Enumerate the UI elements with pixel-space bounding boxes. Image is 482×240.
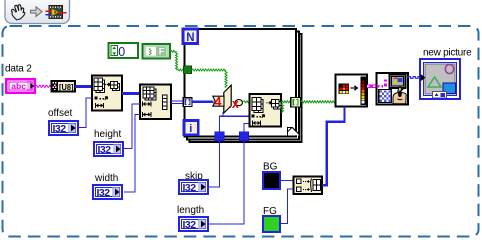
I32 control length — [177, 205, 208, 231]
I32 control offset — [48, 108, 78, 135]
node Array Subset — [92, 76, 122, 111]
boolean wire 4.x to Replace Array Subset — [243, 101, 249, 103]
svg-text:4: 4 — [214, 94, 222, 109]
svg-text:BG: BG — [263, 162, 278, 173]
for loop main frame — [185, 29, 297, 137]
toolbar VI snippet icon — [46, 6, 67, 19]
node Draw Flattened Pixmap — [377, 73, 409, 105]
boolean wire False constant to loop tunnel — [170, 50, 177, 52]
svg-text:0: 0 — [118, 45, 125, 59]
svg-text:I32: I32 — [53, 123, 67, 135]
numeric constant 0 — [109, 43, 139, 59]
boolean constant False — [143, 44, 171, 59]
node Reshape Array — [140, 85, 171, 120]
I32 control skip — [179, 171, 208, 194]
wire length to tunnel — [209, 141, 244, 224]
boolean wire stub down right edge — [282, 103, 284, 113]
I32 control width — [93, 173, 122, 199]
svg-text:i: i — [189, 123, 192, 135]
svg-text:.x: .x — [228, 97, 238, 111]
node Build Array — [294, 177, 323, 195]
svg-text:I32: I32 — [97, 187, 111, 199]
svg-text:height: height — [94, 129, 121, 140]
svg-text:I32: I32 — [98, 144, 112, 156]
color array wire Build Array to mapper — [322, 107, 345, 186]
wire width to Reshape — [124, 115, 140, 193]
svg-text:N: N — [186, 32, 194, 44]
boolean wire Replace Array Subset to right tunnel — [281, 101, 291, 103]
loop bottom tunnel skip — [215, 132, 224, 141]
toolbar run arrow icon — [31, 7, 43, 17]
wire length riser to length input — [244, 123, 250, 131]
wire BG to Build Array — [281, 180, 294, 182]
wire height to Reshape — [124, 104, 140, 149]
array wire left tunnel to 4.x node — [192, 101, 214, 104]
subdiagram dog-ear fold — [288, 127, 300, 135]
node String To Byte Array [U8] — [52, 81, 76, 92]
u8 array wire Array Subset to Reshape — [122, 92, 140, 95]
wire offset to Array Subset — [79, 98, 92, 128]
for loop stacked page 3 — [190, 34, 302, 142]
svg-text:I32: I32 — [183, 182, 197, 194]
svg-text:width: width — [94, 173, 118, 184]
for loop count terminal N — [183, 29, 198, 44]
svg-text:length: length — [177, 205, 204, 216]
loop right tunnel (indexing disabled) — [291, 97, 301, 107]
loop boolean input tunnel — [184, 66, 192, 74]
color box constant FG — [263, 206, 280, 232]
boolean wire right tunnel to color mapper — [301, 101, 336, 103]
u8 array wire U8 to Array Subset — [75, 85, 92, 88]
string control data 2 — [5, 64, 35, 93]
for loop stacked page 2 — [187, 32, 299, 140]
wire 4.x bottom stub — [222, 112, 224, 116]
svg-text:data 2: data 2 — [5, 64, 32, 75]
wire skip to tunnel — [209, 141, 220, 187]
for loop iteration terminal i — [184, 121, 198, 136]
color box constant BG — [263, 162, 280, 190]
svg-text:offset: offset — [48, 108, 72, 119]
toolbar hand tool icon — [11, 5, 24, 20]
svg-text:F: F — [159, 46, 165, 57]
string wire data2 to U8 — [36, 85, 52, 87]
loop left tunnel (indexing disabled) — [183, 98, 192, 107]
wire skip riser to index input — [220, 116, 250, 132]
svg-text:[U8]: [U8] — [59, 83, 74, 92]
toolbar background — [5, 0, 70, 24]
svg-text:new picture: new picture — [423, 48, 472, 59]
2d array wire Reshape to loop tunnel — [171, 101, 184, 104]
I32 control height — [94, 129, 123, 156]
svg-text:I32: I32 — [183, 219, 197, 231]
wire FG to Build Array — [281, 189, 294, 224]
picture indicator new picture — [420, 48, 472, 100]
node 4.x (version selector) — [213, 85, 243, 113]
boolean wire tunnel to 4.x node — [191, 69, 226, 71]
pixmap cluster wire mapper to Draw Pixmap — [367, 85, 377, 88]
svg-text:abc: abc — [11, 81, 26, 91]
node boolean-to-color mapper — [336, 75, 368, 107]
node Replace Array Subset — [250, 94, 282, 127]
loop bottom tunnel length — [239, 132, 248, 141]
picture wire Draw Pixmap to indicator — [408, 77, 420, 79]
